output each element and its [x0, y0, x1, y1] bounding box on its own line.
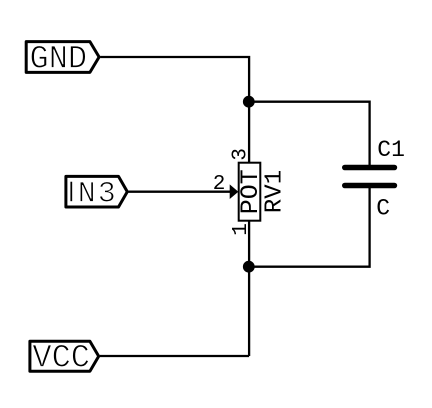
svg-text:2: 2 — [213, 173, 226, 196]
svg-text:VCC: VCC — [32, 340, 90, 377]
svg-text:GND: GND — [29, 41, 87, 78]
svg-text:C1: C1 — [377, 137, 405, 163]
svg-text:C: C — [376, 196, 390, 222]
svg-text:1: 1 — [230, 223, 253, 236]
svg-text:N: N — [78, 178, 96, 212]
svg-text:RV1: RV1 — [262, 170, 289, 213]
svg-text:POT: POT — [236, 169, 265, 214]
svg-text:3: 3 — [230, 148, 253, 161]
svg-text:3: 3 — [98, 178, 116, 212]
